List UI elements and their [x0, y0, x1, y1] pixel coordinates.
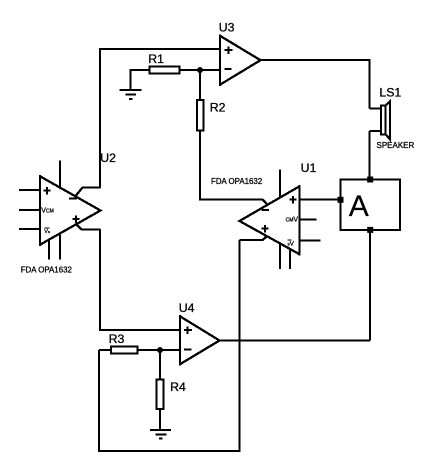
svg-text:U4: U4 [179, 301, 195, 315]
svg-text:CMV: CMV [286, 217, 299, 224]
svg-text:R3: R3 [109, 332, 125, 346]
svg-text:FDA OPA1632: FDA OPA1632 [21, 265, 72, 274]
svg-text:SPEAKER: SPEAKER [377, 141, 415, 150]
svg-text:VCM: VCM [41, 208, 53, 215]
svg-text:U3: U3 [219, 21, 235, 35]
svg-text:R2: R2 [210, 101, 226, 115]
svg-text:sV: sV [288, 240, 295, 247]
svg-text:Vs: Vs [44, 229, 50, 235]
svg-text:U2: U2 [100, 151, 116, 165]
svg-text:A: A [349, 190, 369, 223]
svg-text:R4: R4 [170, 380, 186, 394]
svg-text:R1: R1 [148, 52, 164, 66]
svg-text:U1: U1 [301, 161, 317, 175]
svg-text:LS1: LS1 [379, 86, 401, 100]
svg-text:FDA OPA1632: FDA OPA1632 [211, 177, 262, 186]
